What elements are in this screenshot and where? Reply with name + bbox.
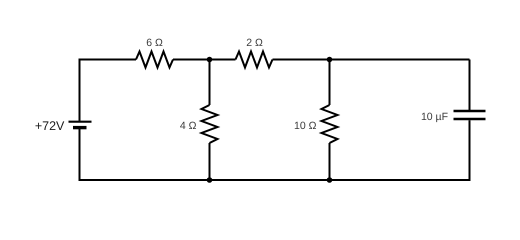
svg-text:10 µF: 10 µF <box>421 111 448 123</box>
wire: node A to resistor 2Ω <box>210 59 236 61</box>
wire: resistor 4Ω top lead from node A <box>209 60 211 106</box>
node C junction dot (bottom, 4Ω branch) <box>207 177 213 183</box>
svg-text:+72V: +72V <box>35 119 65 133</box>
svg-text:2 Ω: 2 Ω <box>246 37 263 49</box>
node D junction (bottom, 10Ω branch) wire to node C <box>210 179 330 181</box>
wire: node B to top-right corner (capacitor branch) <box>330 59 470 61</box>
wire: capacitor bottom lead to bottom-right corner <box>330 120 470 180</box>
svg-text:10 Ω: 10 Ω <box>294 120 317 132</box>
svg-text:4 Ω: 4 Ω <box>180 120 197 132</box>
wire: node C to bottom-left corner (battery branch) <box>80 129 210 180</box>
battery V1 short negative plate <box>73 126 87 129</box>
wire: top-left segment from battery positive to resistor 6Ω <box>80 60 137 121</box>
resistor 4Ω zigzag <box>202 105 218 143</box>
wire: resistor 4Ω bottom lead to node C <box>209 143 211 180</box>
capacitor 10µF bottom plate <box>454 118 486 121</box>
wire: resistor 10Ω top lead from node B <box>329 60 331 106</box>
capacitor 10µF top plate <box>454 110 486 113</box>
node B junction dot (top, 10Ω branch) <box>327 57 333 63</box>
svg-text:6 Ω: 6 Ω <box>146 37 163 49</box>
wire: resistor 10Ω bottom lead to node D <box>329 143 331 180</box>
node A junction dot (top, 4Ω branch) <box>207 57 213 63</box>
resistor 6Ω zigzag <box>136 52 173 68</box>
node D junction dot (bottom, 10Ω branch) <box>327 177 333 183</box>
resistor 10Ω zigzag <box>322 105 338 143</box>
resistor 2Ω zigzag <box>236 52 273 68</box>
wire: capacitor top lead <box>469 60 471 111</box>
wire: resistor 2Ω to node B <box>273 59 330 61</box>
wire: resistor 6Ω to node A <box>173 59 210 61</box>
battery V1 long positive plate <box>69 121 92 123</box>
